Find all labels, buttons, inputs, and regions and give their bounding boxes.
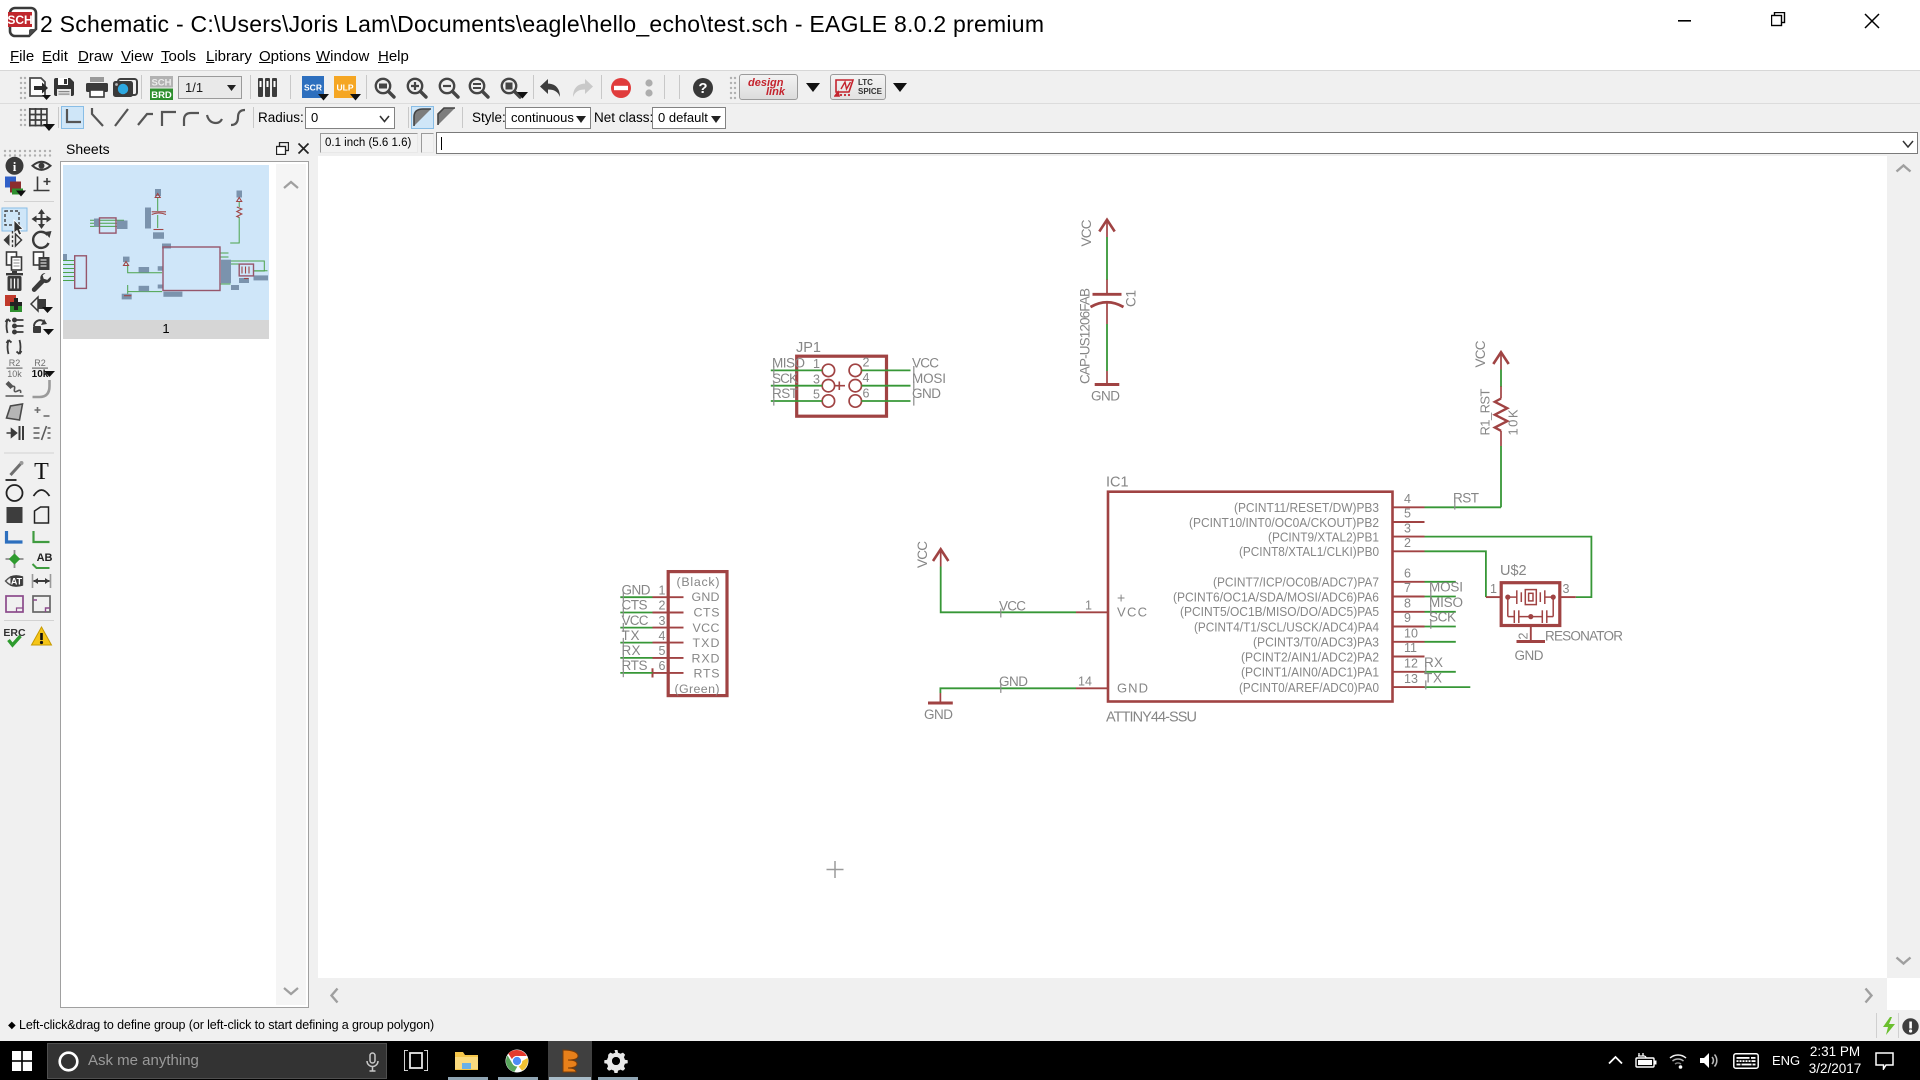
task view <box>404 1050 428 1071</box>
net label GND <box>912 386 941 405</box>
capacitor C1 <box>1078 280 1139 385</box>
svg-text:VCC: VCC <box>1117 604 1147 619</box>
wire IC1 pin2 to U$2 pin1 <box>1425 551 1486 597</box>
ENG <box>1772 1053 1800 1068</box>
frame2 <box>33 596 50 612</box>
file explorer <box>454 1049 479 1072</box>
svg-text:3: 3 <box>813 372 820 386</box>
wire R1 to RST node <box>1500 446 1502 507</box>
ground symbol GND (below U$2) <box>1515 642 1546 664</box>
net label SCK <box>1429 610 1456 629</box>
wire RTS to FTDI pin6 <box>620 672 652 674</box>
start button <box>12 1051 32 1071</box>
wire JP1 pin2 to VCC <box>862 369 911 371</box>
svg-text:9: 9 <box>1404 611 1411 625</box>
svg-text:RESONATOR: RESONATOR <box>1545 629 1623 644</box>
row3 content <box>0 131 1920 156</box>
svg-text:RST: RST <box>772 386 798 401</box>
net label TX (FTDI) <box>622 628 640 647</box>
C1 top pin <box>1106 280 1108 294</box>
resistor R1_RST 10K <box>1478 386 1521 446</box>
svg-text:(PCINT2/AIN1/ADC2)PA2: (PCINT2/AIN1/ADC2)PA2 <box>1241 649 1379 664</box>
svg-text:U$2: U$2 <box>1500 563 1527 579</box>
IC1 pin 1 stub <box>1076 611 1108 613</box>
speaker <box>1699 1052 1720 1069</box>
FTDI pin 6 stub <box>653 672 684 674</box>
wire TX (IC1 pin13) <box>1425 686 1471 688</box>
value <box>32 358 55 380</box>
svg-text:SCH: SCH <box>8 13 33 27</box>
wrench <box>32 273 51 292</box>
svg-text:(PCINT9/XTAL2)PB1: (PCINT9/XTAL2)PB1 <box>1268 529 1379 544</box>
errors <box>32 627 52 645</box>
wire GND net to IC1 pin14 <box>940 688 1076 693</box>
svg-text:RXD: RXD <box>692 651 720 665</box>
svg-text:3: 3 <box>1563 582 1570 596</box>
svg-text:(PCINT4/T1/SCL/USCK/ADC4)PA4: (PCINT4/T1/SCL/USCK/ADC4)PA4 <box>1194 619 1379 634</box>
svg-text:8: 8 <box>1404 597 1411 611</box>
gateswap <box>7 340 22 354</box>
ground symbol GND (below C1) <box>1091 371 1120 404</box>
IC1 pin 10 stub <box>1392 641 1425 643</box>
IC1 pin 8 stub <box>1392 611 1425 613</box>
text <box>34 459 49 485</box>
svg-text:2: 2 <box>1517 633 1531 640</box>
net label MISO <box>772 356 805 375</box>
smash <box>6 381 24 396</box>
svg-text:BRD: BRD <box>151 90 172 100</box>
svg-text:5: 5 <box>1404 507 1411 521</box>
svg-text:4: 4 <box>659 629 666 643</box>
arc <box>34 490 50 496</box>
svg-text:ERC: ERC <box>3 627 26 639</box>
frame <box>6 596 23 612</box>
svg-text:10k: 10k <box>32 369 49 380</box>
svg-text:R2: R2 <box>9 358 21 368</box>
add part <box>5 295 22 312</box>
tray chevron <box>1608 1055 1623 1065</box>
net label MISO <box>1429 595 1463 614</box>
wire SCK (IC1 pin9) <box>1425 626 1456 628</box>
svg-text:10: 10 <box>1404 627 1418 641</box>
net label RX (FTDI) <box>622 643 641 662</box>
notification <box>1875 1052 1894 1070</box>
wire MOSI (IC1 pin7) <box>1425 596 1456 598</box>
wire CTS to FTDI pin2 <box>620 612 652 614</box>
IC1 pin 14 stub <box>1076 687 1108 689</box>
svg-text:(PCINT0/AREF/ADC0)PA0: (PCINT0/AREF/ADC0)PA0 <box>1239 680 1379 695</box>
svg-text:(Green): (Green) <box>675 682 720 696</box>
svg-text:T: T <box>34 459 49 485</box>
svg-text:MISO: MISO <box>1429 595 1463 610</box>
wire IC1 pin10 stub net <box>1425 641 1456 643</box>
net label GND (on pin14 wire) <box>999 674 1028 693</box>
JP1 origin cross <box>835 382 845 391</box>
IC1 pin 13 stub <box>1392 686 1425 688</box>
split <box>35 407 50 416</box>
JP1 pin 1 circle <box>822 364 834 376</box>
wire VCC net to IC1 pin1 <box>941 567 1076 613</box>
svg-text:CTS: CTS <box>694 606 720 620</box>
IC1 pin 4 stub <box>1392 506 1425 508</box>
mirror <box>4 231 22 249</box>
svg-text:(PCINT3/T0/ADC3)PA3: (PCINT3/T0/ADC3)PA3 <box>1253 635 1379 650</box>
wire VCC to C1 <box>1106 237 1108 280</box>
rect <box>7 507 23 523</box>
R1 zigzag body <box>1495 399 1508 431</box>
net label SCK <box>772 371 798 390</box>
svg-text:JP1: JP1 <box>796 340 821 356</box>
svg-text:CTS: CTS <box>622 598 648 613</box>
svg-text:GND: GND <box>622 582 651 597</box>
wire IC1 pin6 stub net <box>1425 581 1456 583</box>
C1 bottom pin <box>1106 304 1108 325</box>
svg-text:1: 1 <box>659 583 666 597</box>
settings gear <box>604 1049 628 1073</box>
svg-text:14: 14 <box>1078 675 1092 689</box>
IC1 pin 11 stub <box>1392 656 1425 658</box>
net label VCC (on pin1 wire) <box>999 598 1026 617</box>
svg-text:6: 6 <box>1404 567 1411 581</box>
origin crosshair mark <box>827 861 844 878</box>
svg-text:+: + <box>1117 590 1125 606</box>
svg-text:12: 12 <box>1404 657 1418 671</box>
eagle (active) <box>548 1041 592 1080</box>
U$2 junction dots <box>1505 595 1510 600</box>
wire RX to FTDI pin5 <box>620 657 652 659</box>
dimension <box>33 574 51 588</box>
net label RTS (FTDI) <box>622 658 648 677</box>
svg-text:VCC: VCC <box>912 356 939 371</box>
pinswap <box>6 318 24 333</box>
svg-text:SCK: SCK <box>1429 610 1456 625</box>
svg-text:3: 3 <box>1404 521 1411 535</box>
chrome <box>505 1049 529 1073</box>
svg-text:(Black): (Black) <box>677 575 720 589</box>
wire GND to FTDI pin1 <box>620 596 652 598</box>
JP1 pin 4 circle <box>849 380 861 392</box>
svg-text:C1: C1 <box>1124 290 1139 307</box>
U$2 pin 3 stub <box>1560 596 1576 598</box>
wire RX (IC1 pin12) <box>1425 671 1456 673</box>
svg-text:VCC: VCC <box>622 613 649 628</box>
wire VCC to FTDI pin3 <box>620 627 652 629</box>
svg-text:(PCINT1/AIN0/ADC1)PA1: (PCINT1/AIN0/ADC1)PA1 <box>1241 665 1379 680</box>
svg-text:GND: GND <box>1515 648 1544 663</box>
wire C1 to GND <box>1106 324 1108 371</box>
IC1 body <box>1108 492 1393 702</box>
junction <box>6 550 24 568</box>
miter <box>33 380 50 397</box>
R1 bottom pin <box>1500 431 1502 446</box>
net label MOSI <box>912 371 946 390</box>
svg-text:VCC: VCC <box>1079 219 1094 246</box>
IC1 pin 9 stub <box>1392 626 1425 628</box>
label <box>33 552 53 568</box>
net label VCC (FTDI) <box>622 613 649 632</box>
IC1 pin 6 stub <box>1392 581 1425 583</box>
svg-text:13: 13 <box>1404 672 1418 686</box>
IC1 pin 5 stub <box>1392 521 1425 523</box>
info <box>6 157 24 175</box>
erc <box>3 627 26 645</box>
wire JP1 pin6 to GND <box>862 400 911 402</box>
svg-text:GND: GND <box>912 386 941 401</box>
move <box>32 209 52 229</box>
JP1 pin 5 circle <box>822 395 834 407</box>
svg-text:RX: RX <box>622 643 641 658</box>
power symbol VCC (above R1) <box>1473 340 1509 369</box>
svg-text:MOSI: MOSI <box>912 371 946 386</box>
svg-text:5: 5 <box>659 644 666 658</box>
net <box>34 531 50 542</box>
svg-text:VCC: VCC <box>1473 340 1488 367</box>
replace/dropdown <box>31 297 53 313</box>
net label VCC <box>912 356 939 375</box>
FTDI body <box>668 572 727 696</box>
battery <box>1635 1052 1657 1069</box>
svg-text:TXD: TXD <box>693 636 720 650</box>
svg-text:VCC: VCC <box>693 621 720 635</box>
palette grip <box>2 146 56 156</box>
U$2 pin 1 stub <box>1486 596 1502 598</box>
svg-text:CAP-US1206FAB: CAP-US1206FAB <box>1078 288 1093 384</box>
svg-text:?: ? <box>698 80 707 97</box>
R1 top pin <box>1500 386 1502 398</box>
display origin <box>34 177 51 191</box>
layers <box>5 177 26 197</box>
attribute <box>6 576 23 587</box>
IC1 pin 12 stub <box>1392 671 1425 673</box>
polygon <box>35 507 49 523</box>
svg-text:i: i <box>13 159 17 174</box>
svg-text:7: 7 <box>1404 581 1411 595</box>
IC1 pin 7 stub <box>1392 596 1425 598</box>
svg-text:6: 6 <box>659 659 666 673</box>
wire MISO (IC1 pin8) <box>1425 611 1456 613</box>
FTDI pin 3 stub <box>653 627 684 629</box>
svg-text:RX: RX <box>1424 655 1443 670</box>
wire IC1 pin3 to U$2 pin3 <box>1425 537 1592 598</box>
svg-text:TX: TX <box>1424 670 1442 685</box>
JP1 body <box>797 356 887 416</box>
technology <box>34 426 51 440</box>
bus <box>7 531 23 542</box>
resonator U$2 <box>1486 563 1623 644</box>
svg-text:3: 3 <box>659 614 666 628</box>
select group (active) <box>2 208 27 231</box>
open-app underline indicators <box>448 1077 488 1080</box>
svg-text:GND: GND <box>999 674 1028 689</box>
wire VCC to R1 <box>1500 370 1502 388</box>
JP1 pin 3 circle <box>822 380 834 392</box>
search box <box>47 1043 387 1079</box>
svg-text:(PCINT7/ICP/OC0B/ADC7)PA7: (PCINT7/ICP/OC0B/ADC7)PA7 <box>1213 575 1379 590</box>
paste <box>34 252 50 270</box>
svg-text:VCC: VCC <box>915 541 930 568</box>
ground symbol GND (left of IC1) <box>924 693 953 722</box>
clock <box>1805 1044 1865 1077</box>
wire IC1 pin4 to R1 (RST net) <box>1425 506 1502 508</box>
svg-text:R2: R2 <box>34 358 46 368</box>
IC1 pin 2 stub <box>1392 550 1425 552</box>
connector FTDI header <box>653 572 728 696</box>
svg-text:11: 11 <box>1404 641 1417 655</box>
svg-text:(PCINT8/XTAL1/CLKI)PB0: (PCINT8/XTAL1/CLKI)PB0 <box>1239 544 1379 559</box>
net label RST <box>1453 491 1479 510</box>
eye <box>33 162 51 170</box>
svg-text:(PCINT5/OC1B/MISO/DO/ADC5)PA5: (PCINT5/OC1B/MISO/DO/ADC5)PA5 <box>1180 604 1379 619</box>
power symbol VCC (left of IC1) <box>915 541 949 568</box>
svg-text:IC1: IC1 <box>1106 475 1129 491</box>
svg-text:RTS: RTS <box>622 658 648 673</box>
svg-text:SCK: SCK <box>772 371 798 386</box>
wire TX to FTDI pin4 <box>620 642 652 644</box>
svg-text:2: 2 <box>863 356 870 370</box>
keyboard <box>1733 1053 1759 1069</box>
svg-text:4: 4 <box>863 371 870 385</box>
JP1 pin 6 circle <box>849 395 861 407</box>
svg-text:GND: GND <box>924 707 953 722</box>
U$2 body <box>1501 583 1560 626</box>
svg-text:SCH: SCH <box>151 78 171 89</box>
svg-text:GND: GND <box>1091 389 1120 404</box>
wire RST to JP1 pin5 <box>771 400 822 402</box>
JP1 pin 2 circle <box>849 364 861 376</box>
svg-text:TX: TX <box>622 628 640 643</box>
svg-text:4: 4 <box>1404 492 1411 506</box>
polygon-morph <box>7 404 23 420</box>
svg-text:GND: GND <box>692 590 720 604</box>
wifi <box>1668 1052 1688 1069</box>
svg-text:(PCINT6/OC1A/SDA/MOSI/ADC6)PA6: (PCINT6/OC1A/SDA/MOSI/ADC6)PA6 <box>1173 589 1379 604</box>
FTDI pin 4 stub <box>653 642 684 644</box>
svg-text:RTS: RTS <box>694 667 720 681</box>
svg-text:1: 1 <box>1490 582 1497 596</box>
svg-text:VCC: VCC <box>999 598 1026 613</box>
net label RX <box>1424 655 1443 674</box>
svg-text:2: 2 <box>1404 536 1411 550</box>
net label RST <box>772 386 798 405</box>
FTDI pin 5 stub <box>653 657 684 659</box>
C1 top plate <box>1093 293 1122 296</box>
lock <box>33 319 54 335</box>
svg-text:2: 2 <box>659 599 666 613</box>
C1 bottom plate arc <box>1091 302 1124 307</box>
svg-text:MISO: MISO <box>772 356 805 371</box>
delete <box>6 271 23 291</box>
svg-text:1: 1 <box>813 357 820 371</box>
name <box>7 358 23 379</box>
IC1 pin 3 stub <box>1392 536 1425 538</box>
svg-text:MOSI: MOSI <box>1429 580 1463 595</box>
FTDI pin 1 stub <box>653 596 684 598</box>
svg-text:RST: RST <box>1453 491 1479 506</box>
wire JP1 pin4 to MOSI <box>862 385 911 387</box>
wire MISO to JP1 pin1 <box>771 369 822 371</box>
circle <box>7 485 23 501</box>
net label CTS (FTDI) <box>622 598 648 617</box>
svg-text:5: 5 <box>813 388 820 402</box>
FTDI pin 2 stub <box>653 612 684 614</box>
svg-text:6: 6 <box>863 386 870 400</box>
net label GND (FTDI) <box>622 582 651 601</box>
copy <box>7 252 22 270</box>
svg-text:AB: AB <box>37 552 53 564</box>
net label MOSI <box>1429 580 1463 599</box>
net label TX <box>1424 670 1442 689</box>
U$2 pin 2 stub <box>1530 626 1532 642</box>
svg-text:AT: AT <box>11 577 23 587</box>
svg-text:SCR: SCR <box>304 83 322 93</box>
U$2 internal crystal and capacitors <box>1508 590 1553 623</box>
connector JP1 <box>796 340 887 416</box>
svg-text:10K: 10K <box>1506 409 1521 435</box>
FTDI pin 6 end tick <box>652 668 654 677</box>
wire <box>6 461 24 480</box>
svg-text:(PCINT10/INT0/OC0A/CKOUT)PB2: (PCINT10/INT0/OC0A/CKOUT)PB2 <box>1189 515 1379 530</box>
IC1 ATTINY44-SSU <box>1076 475 1425 726</box>
svg-text:1: 1 <box>1085 599 1092 613</box>
svg-text:10k: 10k <box>7 369 22 379</box>
svg-text:ULP: ULP <box>337 83 354 93</box>
svg-text:(PCINT11/RESET/DW)PB3: (PCINT11/RESET/DW)PB3 <box>1234 500 1379 515</box>
rotate <box>33 231 51 248</box>
power symbol VCC (above C1) <box>1079 219 1115 246</box>
svg-text:ATTINY44-SSU: ATTINY44-SSU <box>1106 710 1197 726</box>
svg-text:GND: GND <box>1117 680 1148 695</box>
wire SCK to JP1 pin3 <box>771 385 822 387</box>
invoke <box>7 426 24 440</box>
svg-text:R1_RST: R1_RST <box>1478 388 1493 435</box>
